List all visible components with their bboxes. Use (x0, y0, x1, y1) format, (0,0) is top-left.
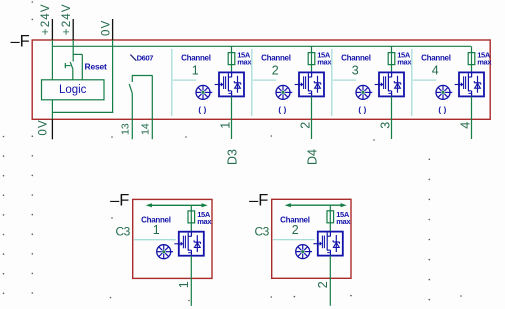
svg-text:13: 13 (120, 123, 132, 135)
svg-text:2: 2 (316, 281, 330, 288)
svg-text:max: max (317, 58, 332, 67)
wire fuse to output stage (bottom 1) (190, 223, 192, 232)
wire fuse to output stage 3 (391, 65, 393, 73)
wire arrow to fuse (329, 205, 331, 211)
svg-text:max: max (336, 217, 351, 226)
output stage box Q2 (295, 72, 324, 96)
wire fuse to output stage 1 (231, 65, 233, 73)
svg-text:+24V: +24V (61, 3, 73, 35)
wire +24V to fuse F1 (231, 46, 233, 53)
push-button S1 Reset (NO contact) (65, 54, 82, 79)
fuse F4 15A (468, 52, 475, 65)
output stage box Q1 (215, 72, 244, 96)
svg-text:max: max (197, 217, 212, 226)
wire output exit (bottom 1) (190, 256, 192, 306)
svg-text:Channel: Channel (181, 54, 211, 63)
wire output exit (bottom 2) (329, 256, 331, 306)
svg-text:1: 1 (192, 63, 199, 77)
+24V bus wire (52, 45, 471, 47)
svg-text:1: 1 (177, 281, 191, 288)
load indicator M3 (356, 85, 372, 99)
svg-text:C3: C3 (255, 225, 270, 239)
wire +24V to fuse F2 (311, 46, 313, 53)
status line channel 1 (173, 79, 197, 81)
relay contact 13-14 (129, 76, 152, 94)
wire +24V to fuse F3 (391, 46, 393, 53)
svg-text:4: 4 (432, 63, 439, 77)
enclosure box -F (main) (32, 40, 490, 119)
svg-text:–F: –F (110, 192, 129, 210)
wire 0V exit (black, bottom) (51, 119, 53, 139)
fuse 15A (bottom 1) (188, 210, 195, 223)
wire +24V #1 (black, top) (51, 19, 53, 40)
enclosure box -F (bottom, channel 1) (133, 199, 212, 278)
svg-text:Channel: Channel (421, 54, 451, 63)
svg-text:–F: –F (249, 191, 268, 209)
svg-text:(): () (438, 105, 449, 114)
enclosure box -F (bottom, channel 2) (272, 199, 351, 278)
wire Logic to 0V (51, 100, 53, 120)
svg-text:2: 2 (298, 122, 312, 129)
svg-text:4: 4 (458, 122, 472, 129)
svg-text:2: 2 (292, 223, 299, 237)
Logic block U1 (42, 80, 105, 100)
wire fuse to output stage (bottom 2) (329, 223, 331, 232)
svg-text:Reset: Reset (85, 61, 108, 71)
svg-text:max: max (397, 58, 412, 67)
output stage box Q4 (455, 72, 484, 96)
svg-text:D4: D4 (306, 149, 320, 165)
svg-text:C3: C3 (116, 225, 131, 239)
fuse F1 15A (228, 52, 235, 65)
bidirectional arrow (power flow) (146, 203, 208, 207)
svg-text:(): () (358, 105, 369, 114)
svg-text:Channel: Channel (341, 54, 371, 63)
wire arrow to fuse (190, 205, 192, 211)
wire fuse to output stage 4 (471, 65, 473, 73)
load indicator M4 (436, 85, 452, 99)
status line channel 3 (333, 79, 357, 81)
bidirectional arrow (power flow) (285, 203, 347, 207)
svg-text:1: 1 (153, 223, 160, 237)
svg-text:1: 1 (218, 122, 232, 129)
svg-text:D607: D607 (137, 54, 154, 63)
svg-text:3: 3 (352, 63, 359, 77)
svg-text:2: 2 (272, 63, 279, 77)
wire +24V to Reset switch (72, 40, 74, 62)
channel 3 separator (331, 49, 333, 116)
status line channel 4 (413, 79, 437, 81)
wire terminal 14 (151, 76, 153, 140)
wire +24V to fuse F4 (471, 46, 473, 53)
channel 1 separator (171, 49, 173, 116)
channel 2 separator (251, 49, 253, 116)
svg-text:14: 14 (140, 123, 152, 135)
wire output 3 (exit) (391, 96, 393, 139)
wire output 1 (exit) (231, 96, 233, 139)
status line (bottom 1) (134, 239, 176, 241)
fuse F3 15A (388, 52, 395, 65)
wire terminal 13 (131, 94, 133, 140)
wire fuse to output stage 2 (311, 65, 313, 73)
output stage box (bottom 2) (313, 232, 342, 256)
load indicator M1 (196, 85, 212, 99)
wire +24V #2 (black, top) (72, 19, 74, 40)
svg-text:Channel: Channel (261, 54, 291, 63)
output stage box Q3 (375, 72, 404, 96)
wire output 4 (exit) (471, 96, 473, 139)
fuse F2 15A (308, 52, 315, 65)
wire output 2 (exit) (311, 96, 313, 139)
wire +24V to Logic (51, 40, 53, 80)
fuse 15A (bottom 2) (327, 210, 334, 223)
status line (bottom 2) (273, 239, 315, 241)
svg-text:max: max (477, 58, 492, 67)
status line channel 2 (253, 79, 276, 81)
channel 4 separator (411, 49, 413, 116)
svg-text:0V: 0V (37, 119, 49, 135)
svg-text:(): () (198, 105, 209, 114)
svg-text:(): () (278, 105, 289, 114)
wire 0V (black, top) (112, 19, 114, 40)
svg-text:Logic: Logic (59, 84, 87, 96)
svg-text:D3: D3 (226, 149, 240, 165)
load indicator (bottom 1) (157, 245, 173, 259)
load indicator (bottom 2) (296, 245, 312, 259)
device label \D607 (130, 55, 136, 61)
svg-text:–F: –F (11, 32, 30, 50)
svg-text:3: 3 (378, 122, 392, 129)
svg-text:+24V: +24V (40, 3, 52, 35)
wire 0V drop (right) (112, 40, 114, 113)
svg-text:0V: 0V (100, 20, 112, 36)
svg-text:max: max (237, 58, 252, 67)
output stage box (bottom 1) (174, 232, 203, 256)
wire 0V bus (horizontal) (52, 111, 113, 113)
load indicator M2 (276, 85, 292, 99)
